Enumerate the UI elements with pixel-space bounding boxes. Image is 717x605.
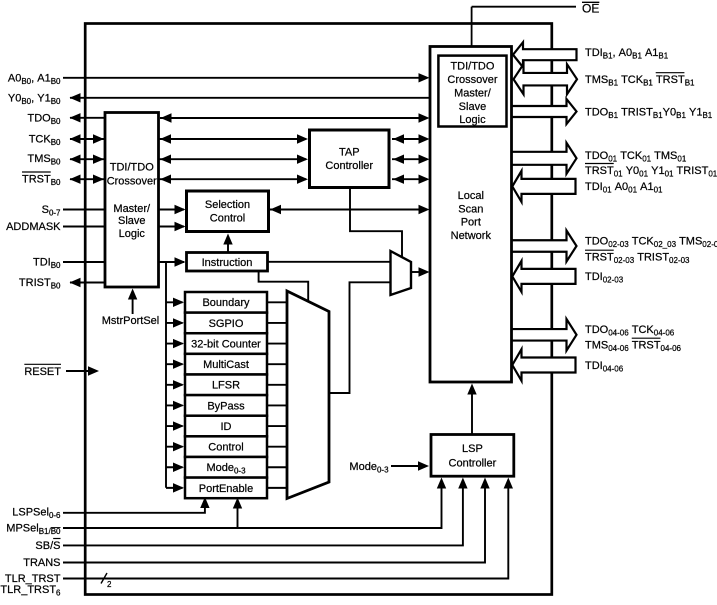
register Boundary: [185, 292, 267, 313]
wire S0-7: [63, 209, 105, 211]
wire register input branch: [166, 363, 183, 365]
svg-text:TRST01 Y001 Y101 TRIST01: TRST01 Y001 Y101 TRIST01: [585, 165, 717, 179]
svg-text:OE: OE: [582, 1, 599, 15]
svg-text:TAP: TAP: [339, 147, 360, 159]
big mux for registers: [287, 291, 329, 499]
block LSP Controller: [431, 435, 514, 477]
wire Instruction output to small mux: [268, 261, 391, 263]
wire Y0B0,Y1B0 output: [70, 97, 430, 99]
wire RESET input: [66, 370, 96, 372]
wire register output to mux: [267, 487, 289, 489]
block Local Scan Port Network: [430, 47, 512, 383]
wire register output to mux: [267, 425, 289, 427]
wire MPSel branch to PortEnable: [237, 500, 239, 528]
svg-text:Slave: Slave: [459, 101, 487, 113]
wire register output to mux: [267, 322, 289, 324]
wire SB/S: [63, 480, 463, 545]
wire register output to mux: [267, 384, 289, 386]
wire LSP controller to LSPN: [471, 387, 473, 434]
register Mode0-3: [185, 457, 267, 478]
block Selection Control: [187, 191, 269, 232]
svg-text:Crossover: Crossover: [107, 175, 157, 187]
svg-text:Logic: Logic: [459, 114, 486, 126]
svg-text:Scan: Scan: [458, 203, 483, 215]
wire register output to mux: [267, 404, 289, 406]
block arrow TDI_B1 A0B1 A1B1 (in): [513, 42, 577, 67]
wire register input branch: [166, 487, 183, 489]
wire TDOB0 crossbar to LSPN: [160, 117, 427, 119]
svg-text:Control: Control: [208, 442, 243, 454]
wire register output to mux: [267, 466, 289, 468]
svg-text:TMSB1 TCKB1 TRSTB1: TMSB1 TCKB1 TRSTB1: [585, 74, 695, 88]
svg-text:TDIB1, A0B1 A1B1: TDIB1, A0B1 A1B1: [585, 47, 669, 61]
svg-text:Network: Network: [451, 230, 492, 242]
block arrow TDI_02-03 (in): [512, 261, 575, 292]
svg-text:Master/: Master/: [113, 203, 151, 215]
svg-text:SGPIO: SGPIO: [209, 318, 244, 330]
svg-text:TLR_TRST6: TLR_TRST6: [0, 584, 61, 598]
svg-text:Control: Control: [210, 213, 245, 225]
wire register input branch: [166, 343, 183, 345]
register PortEnable: [185, 478, 267, 499]
svg-text:Selection: Selection: [205, 199, 250, 211]
wire Selection Control to LSPN bidirectional: [269, 209, 427, 211]
wire register output to mux: [267, 363, 289, 365]
svg-text:ADDMASK: ADDMASK: [6, 221, 61, 233]
wire TDI feed to registers vertical: [165, 262, 167, 488]
register Control: [185, 436, 267, 457]
svg-text:RESET: RESET: [24, 366, 61, 378]
svg-text:PortEnable: PortEnable: [199, 483, 253, 495]
svg-text:MstrPortSel: MstrPortSel: [102, 315, 159, 327]
svg-text:ID: ID: [221, 421, 232, 433]
svg-text:TDO01 TCK01 TMS01: TDO01 TCK01 TMS01: [585, 150, 687, 164]
register LFSR: [185, 374, 267, 395]
wire register output to mux: [267, 301, 289, 303]
svg-text:Master/: Master/: [454, 87, 492, 99]
wire TRSTB0: [70, 178, 104, 180]
svg-text:TDOB1 TRISTB1Y0B1 Y1B1: TDOB1 TRISTB1Y0B1 Y1B1: [585, 106, 713, 120]
wire Instruction to Selection Control: [227, 236, 229, 252]
wire register output to mux: [267, 343, 289, 345]
wire register input branch: [166, 466, 183, 468]
wire register input branch: [166, 322, 183, 324]
block arrow TDO_02-03 TCK_02-03 ... (out): [511, 231, 577, 262]
register ByPass: [185, 395, 267, 416]
block arrow TDO_01 TCK_01 TMS_01 TRST_01 ... (out): [511, 143, 577, 174]
block arrow TMS_B1 TCK_B1 TRST_B1 (bidir): [514, 64, 578, 94]
wire register input branch: [166, 425, 183, 427]
svg-text:SB/S: SB/S: [35, 540, 60, 552]
block TDI/TDO Crossover Master/Slave Logic B1: [438, 56, 506, 127]
wire MstrPortSel arrow: [132, 291, 134, 314]
svg-text:Slave: Slave: [118, 215, 146, 227]
svg-text:TDI/TDO: TDI/TDO: [450, 61, 494, 73]
block arrow TDO_04-06 TCK_04-06 ... (out): [511, 319, 577, 351]
register MultiCast: [185, 354, 267, 375]
wire Mode0-3 input: [391, 465, 426, 467]
wire LSPSel0-6: [63, 500, 205, 513]
block arrow TDI_04-06 (in): [512, 349, 575, 381]
small mux: [391, 251, 412, 295]
bus width slash 2: [101, 573, 107, 584]
wire small mux output to LSPN: [411, 271, 426, 273]
wire Instruction select to big mux: [259, 271, 309, 302]
wire OE: [472, 6, 576, 8]
wire register input branch: [166, 404, 183, 406]
wire TAP select to small mux: [350, 188, 402, 258]
wire A0B0,A1B0 input: [63, 77, 427, 79]
wire ADDMASK: [63, 226, 105, 228]
register ID: [185, 416, 267, 437]
wire big mux output to small mux: [329, 282, 390, 393]
block TAP Controller: [310, 130, 390, 188]
wire TDIB0: [63, 261, 105, 263]
svg-text:32-bit Counter: 32-bit Counter: [191, 338, 261, 350]
wire TMSB0: [70, 158, 104, 160]
block arrow TDI_01 A0_01 A1_01 (in): [512, 171, 575, 202]
outer frame border: [85, 24, 552, 595]
block Instruction: [187, 253, 268, 272]
wire register input branch: [166, 301, 183, 303]
svg-text:ByPass: ByPass: [207, 400, 245, 412]
svg-text:MultiCast: MultiCast: [203, 359, 249, 371]
svg-text:Boundary: Boundary: [202, 297, 250, 309]
wire MPSel: [63, 480, 442, 528]
wire TDOB0 left segment: [70, 117, 105, 119]
block arrow TDO_B1 TRIST_B1 Y0B1 Y1B1 (out): [511, 99, 577, 124]
svg-text:Port: Port: [461, 217, 481, 229]
wire register output to mux: [267, 446, 289, 448]
svg-text:Local: Local: [458, 190, 484, 202]
svg-text:Logic: Logic: [119, 228, 146, 240]
svg-text:TDI01 A001 A101: TDI01 A001 A101: [585, 181, 663, 195]
svg-text:2: 2: [107, 580, 112, 589]
wire TCKB0: [70, 138, 104, 140]
register SGPIO: [185, 313, 267, 334]
svg-text:TDO02-03 TCK02_03 TMS02-03: TDO02-03 TCK02_03 TMS02-03: [585, 235, 717, 249]
svg-text:Controller: Controller: [449, 457, 497, 469]
wire TRANS: [63, 480, 485, 563]
svg-text:TRANS: TRANS: [23, 557, 60, 569]
wire TLR_TRST bus: [63, 480, 508, 579]
block TDI/TDO Crossover Master/Slave Logic B0: [105, 113, 159, 288]
svg-text:LFSR: LFSR: [212, 380, 240, 392]
svg-text:Controller: Controller: [325, 160, 373, 172]
svg-text:TDI/TDO: TDI/TDO: [110, 161, 154, 173]
svg-text:Crossover: Crossover: [447, 74, 497, 86]
wire TRISTB0 output: [70, 282, 105, 284]
wire register input branch: [166, 446, 183, 448]
register 32-bit Counter: [185, 333, 267, 354]
wire register input branch: [166, 384, 183, 386]
svg-text:LSP: LSP: [462, 443, 483, 455]
svg-text:Instruction: Instruction: [202, 257, 253, 269]
